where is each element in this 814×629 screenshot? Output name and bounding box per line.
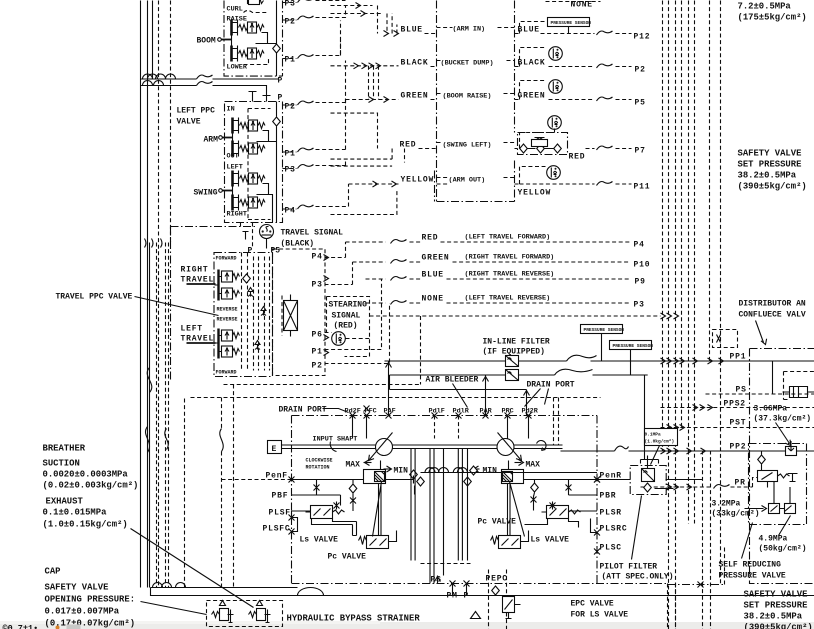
svg-text:3.66MPa: 3.66MPa xyxy=(754,405,788,414)
svg-text:GREEN: GREEN xyxy=(422,254,450,263)
svg-text:FORWARD: FORWARD xyxy=(216,256,237,262)
svg-text:P4: P4 xyxy=(285,207,296,216)
svg-text:(ARM IN): (ARM IN) xyxy=(453,26,486,34)
svg-text:P: P xyxy=(248,247,253,256)
svg-text:LEFT: LEFT xyxy=(181,325,203,334)
svg-text:REVERSE: REVERSE xyxy=(217,307,238,313)
svg-text:PLSFC: PLSFC xyxy=(263,525,291,534)
svg-text:YELLOW: YELLOW xyxy=(401,176,435,185)
svg-text:PILOT FILTER: PILOT FILTER xyxy=(600,563,658,572)
svg-text:P2: P2 xyxy=(285,103,296,112)
svg-text:BREATHER: BREATHER xyxy=(43,444,86,454)
svg-text:LEFT: LEFT xyxy=(227,164,243,172)
svg-text:DISTRIBUTOR AN: DISTRIBUTOR AN xyxy=(739,300,806,309)
svg-text:P3: P3 xyxy=(634,301,645,310)
svg-text:SIGNAL: SIGNAL xyxy=(332,312,361,321)
svg-text:MIN: MIN xyxy=(394,467,409,476)
svg-text:(1.0kg/cm²): (1.0kg/cm²) xyxy=(645,439,675,445)
svg-text:CONFLUECE VALV: CONFLUECE VALV xyxy=(739,311,806,320)
svg-text:PR: PR xyxy=(735,479,746,488)
svg-text:Ls VALVE: Ls VALVE xyxy=(300,536,339,545)
svg-text:SELF REDUCING: SELF REDUCING xyxy=(719,561,782,570)
svg-text:PP2: PP2 xyxy=(730,443,747,452)
svg-text:(50kg/cm²): (50kg/cm²) xyxy=(759,545,807,554)
svg-text:CLOCKWISE: CLOCKWISE xyxy=(306,458,333,464)
svg-text:SET PRESSURE: SET PRESSURE xyxy=(744,601,808,611)
svg-text:ARM: ARM xyxy=(204,136,219,145)
svg-text:38.2±0.5MPa: 38.2±0.5MPa xyxy=(738,171,797,181)
svg-text:38.2±0.5MPa: 38.2±0.5MPa xyxy=(744,612,803,622)
svg-text:SAFETY VALVE: SAFETY VALVE xyxy=(45,583,109,593)
svg-text:NONE: NONE xyxy=(571,1,593,10)
svg-text:PPS2: PPS2 xyxy=(724,400,746,409)
svg-text:P3: P3 xyxy=(285,0,296,9)
svg-text:FOR LS VALVE: FOR LS VALVE xyxy=(571,611,629,620)
svg-text:PST: PST xyxy=(730,419,747,428)
svg-text:PS: PS xyxy=(736,386,747,395)
svg-text:P1: P1 xyxy=(285,150,296,159)
svg-text:Ls VALVE: Ls VALVE xyxy=(531,536,570,545)
svg-text:GREEN: GREEN xyxy=(518,92,546,101)
svg-text:(33kg/cm²): (33kg/cm²) xyxy=(712,510,760,519)
svg-text:BLUE: BLUE xyxy=(401,26,423,35)
svg-text:CURL: CURL xyxy=(227,6,243,14)
svg-text:(37.3kg/cm²): (37.3kg/cm²) xyxy=(754,415,812,424)
svg-text:INPUT SHAFT: INPUT SHAFT xyxy=(313,436,358,444)
svg-text:SUCTION: SUCTION xyxy=(43,459,80,469)
svg-text:BLUE: BLUE xyxy=(422,271,444,280)
svg-text:TRAVEL SIGNAL: TRAVEL SIGNAL xyxy=(281,229,344,238)
svg-text:PRC: PRC xyxy=(502,408,514,416)
svg-text:Pc VALVE: Pc VALVE xyxy=(478,518,517,527)
svg-text:RED: RED xyxy=(569,153,586,162)
svg-text:IN: IN xyxy=(227,106,235,114)
svg-text:VALVE: VALVE xyxy=(177,118,201,127)
svg-text:0.0020±0.0003MPa: 0.0020±0.0003MPa xyxy=(43,470,129,480)
svg-text:P2: P2 xyxy=(285,18,296,27)
svg-text:FORWARD: FORWARD xyxy=(216,370,237,376)
svg-text:7.2±0.5MPa: 7.2±0.5MPa xyxy=(738,2,792,12)
svg-text:(390±5kg/cm²): (390±5kg/cm²) xyxy=(744,623,813,629)
svg-text:PLSF: PLSF xyxy=(269,509,291,518)
svg-text:(IF EQUIPPED): (IF EQUIPPED) xyxy=(483,348,545,357)
svg-text:(RIGHT TRAVEL FORWARD): (RIGHT TRAVEL FORWARD) xyxy=(465,254,555,262)
svg-text:P10: P10 xyxy=(634,261,651,270)
svg-text:0.1MPa: 0.1MPa xyxy=(645,432,662,438)
svg-text:RED: RED xyxy=(422,234,439,243)
svg-text:P4: P4 xyxy=(312,253,323,262)
svg-text:RIGHT: RIGHT xyxy=(227,211,247,219)
svg-text:P6: P6 xyxy=(312,331,323,340)
svg-text:MIN: MIN xyxy=(483,467,498,476)
svg-text:PBR: PBR xyxy=(600,492,617,501)
svg-text:(175±5kg/cm²): (175±5kg/cm²) xyxy=(738,13,807,23)
svg-text:DRAIN PORT: DRAIN PORT xyxy=(279,406,327,415)
svg-text:RED: RED xyxy=(400,141,417,150)
svg-text:P5: P5 xyxy=(635,99,646,108)
svg-text:GREEN: GREEN xyxy=(401,92,429,101)
svg-text:MAX: MAX xyxy=(526,461,541,470)
svg-text:P3: P3 xyxy=(285,166,296,175)
svg-text:EXHAUST: EXHAUST xyxy=(46,497,84,507)
svg-text:(ARM OUT): (ARM OUT) xyxy=(449,177,486,185)
svg-text:EPC VALVE: EPC VALVE xyxy=(571,600,614,609)
svg-text:P1: P1 xyxy=(285,56,296,65)
svg-text:PLSRC: PLSRC xyxy=(600,525,628,534)
svg-text:REVERSE: REVERSE xyxy=(217,317,238,323)
svg-text:Pc VALVE: Pc VALVE xyxy=(328,553,367,562)
svg-text:0.017±0.007MPa: 0.017±0.007MPa xyxy=(45,607,120,617)
svg-text:BLUE: BLUE xyxy=(518,26,540,35)
svg-text:BOOM: BOOM xyxy=(197,37,216,46)
svg-text:RIGHT: RIGHT xyxy=(181,266,209,275)
svg-text:(BUCKET DUMP): (BUCKET DUMP) xyxy=(441,60,494,68)
svg-text:OPENING PRESSURE:: OPENING PRESSURE: xyxy=(45,595,136,605)
svg-text:P2: P2 xyxy=(312,362,323,371)
svg-text:DRAIN PORT: DRAIN PORT xyxy=(527,381,575,390)
svg-text:LEFT PPC: LEFT PPC xyxy=(177,107,216,116)
svg-text:PP1: PP1 xyxy=(730,353,747,362)
svg-text:NONE: NONE xyxy=(422,295,444,304)
svg-text:(RIGHT TRAVEL REVERSE): (RIGHT TRAVEL REVERSE) xyxy=(465,271,555,279)
svg-text:(0.02±0.003kg/cm²): (0.02±0.003kg/cm²) xyxy=(43,481,139,491)
svg-text:P: P xyxy=(278,77,283,86)
svg-text:PdlR: PdlR xyxy=(453,408,470,416)
svg-text:AIR BLEEDER: AIR BLEEDER xyxy=(426,376,479,385)
svg-text:SET PRESSURE: SET PRESSURE xyxy=(738,160,802,170)
svg-text:P7: P7 xyxy=(635,147,646,156)
svg-text:P3: P3 xyxy=(312,281,323,290)
svg-text:(BLACK): (BLACK) xyxy=(281,240,315,249)
svg-text:TRAVEL PPC VALVE: TRAVEL PPC VALVE xyxy=(56,293,133,302)
svg-text:P1: P1 xyxy=(312,348,323,357)
svg-text:PRESSURE VALVE: PRESSURE VALVE xyxy=(719,572,786,581)
svg-text:(SWING LEFT): (SWING LEFT) xyxy=(443,142,492,150)
svg-text:(390±5kg/cm²): (390±5kg/cm²) xyxy=(738,182,807,192)
svg-text:SAFETY VALVE: SAFETY VALVE xyxy=(744,590,808,600)
svg-text:(1.0±0.15kg/cm²): (1.0±0.15kg/cm²) xyxy=(43,520,128,530)
svg-text:SAFETY VALVE: SAFETY VALVE xyxy=(738,149,802,159)
svg-text:(RED): (RED) xyxy=(334,322,358,331)
svg-text:P9: P9 xyxy=(635,278,646,287)
svg-text:ROTATION: ROTATION xyxy=(306,465,330,471)
svg-text:PdlF: PdlF xyxy=(429,408,445,416)
svg-text:HYDRAULIC BYPASS STRAINER: HYDRAULIC BYPASS STRAINER xyxy=(287,614,421,624)
svg-text:PLSC: PLSC xyxy=(600,544,622,553)
svg-text:0.1±0.015MPa: 0.1±0.015MPa xyxy=(43,508,108,518)
svg-text:CAP: CAP xyxy=(45,567,61,577)
svg-text:3.2MPa: 3.2MPa xyxy=(712,500,741,509)
svg-text:BLACK: BLACK xyxy=(401,59,429,68)
svg-text:P12: P12 xyxy=(634,33,651,42)
svg-text:©0.7±1•: ©0.7±1• xyxy=(3,624,39,629)
svg-text:P4: P4 xyxy=(634,241,645,250)
svg-text:STEARING: STEARING xyxy=(329,301,368,310)
svg-text:IN-LINE FILTER: IN-LINE FILTER xyxy=(483,338,550,347)
svg-text:P2: P2 xyxy=(635,66,646,75)
svg-text:E: E xyxy=(272,445,277,454)
svg-text:PBF: PBF xyxy=(272,492,289,501)
svg-text:SWING: SWING xyxy=(194,189,218,198)
svg-text:MAX: MAX xyxy=(346,461,361,470)
svg-text:(LEFT TRAVEL FORWARD): (LEFT TRAVEL FORWARD) xyxy=(465,234,551,242)
svg-text:PLSR: PLSR xyxy=(600,509,622,518)
svg-text:(LEFT TRAVEL REVERSE): (LEFT TRAVEL REVERSE) xyxy=(465,295,551,303)
svg-text:BLACK: BLACK xyxy=(518,59,546,68)
svg-text:YELLOW: YELLOW xyxy=(518,189,552,198)
svg-text:P11: P11 xyxy=(634,183,651,192)
svg-text:4.9MPa: 4.9MPa xyxy=(759,535,788,544)
svg-text:(BOOM RAISE): (BOOM RAISE) xyxy=(443,93,492,101)
svg-text:(ATT SPEC.ONLY): (ATT SPEC.ONLY) xyxy=(602,573,674,582)
